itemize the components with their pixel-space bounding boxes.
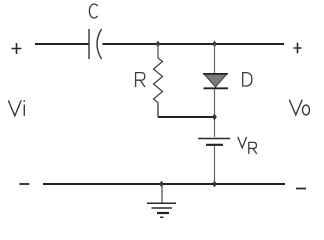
resistor R zigzag (154, 58, 163, 103)
minus sign bottom-left (Vi -) (19, 183, 29, 185)
wire bottom rail (43, 183, 285, 185)
wire resistor top stub (157, 44, 159, 58)
diode D top bar (203, 73, 228, 75)
battery VR short plate (206, 144, 223, 146)
node junction bottom rail / ground (159, 181, 164, 187)
diode D cathode bar (204, 87, 229, 89)
plus sign top-right (Vo +) (294, 43, 302, 53)
wire resistor bottom stub (157, 103, 159, 118)
diode D label (243, 73, 252, 86)
label Vi (8, 100, 24, 115)
ground bar 1 (147, 202, 176, 204)
node junction bottom rail / battery column (212, 181, 217, 187)
wire battery to bottom rail (214, 146, 216, 184)
battery VR long plate (198, 138, 230, 140)
wire top-left (input to capacitor) (35, 43, 89, 45)
wire ground stub (161, 184, 163, 203)
capacitor C label (89, 4, 97, 18)
node junction resistor wire / diode-battery column (212, 114, 217, 120)
wire diode anode (214, 44, 216, 74)
battery VR label subscript R (249, 142, 257, 154)
battery VR label V (238, 137, 247, 148)
ground bar 3 (157, 212, 169, 214)
minus sign bottom-right (Vo -) (296, 188, 306, 190)
resistor R label (136, 73, 145, 87)
wire top-right (capacitor to output) (103, 43, 285, 45)
diode D triangle (205, 75, 227, 88)
wire diode cathode to battery (214, 89, 216, 137)
label Vo (289, 100, 309, 115)
wire resistor bottom horizontal to diode column (158, 116, 215, 118)
node junction top wire / diode (212, 41, 217, 47)
ground bar 2 (152, 207, 173, 209)
ground bar 4 (160, 216, 164, 218)
capacitor C left plate (88, 29, 90, 59)
plus sign top-left (Vi +) (12, 43, 22, 54)
capacitor C right curved plate (97, 29, 102, 59)
node junction top wire / resistor (156, 41, 161, 47)
